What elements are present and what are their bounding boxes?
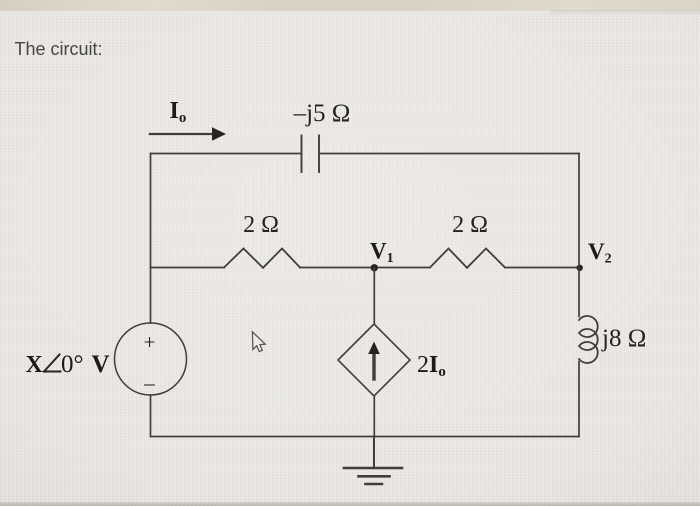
voltage source Vs circle — [115, 323, 187, 395]
dependent source arrow — [368, 342, 380, 380]
wire from dependent source to bottom wire — [373, 396, 375, 437]
wire from node V1 down to dependent source — [373, 268, 375, 324]
svg-text:2Io: 2Io — [417, 352, 446, 380]
current arrow Io — [150, 127, 226, 140]
svg-text:0°: 0° — [61, 351, 84, 378]
resistor R2 2 ohm zigzag — [430, 249, 505, 268]
node V1 dot — [371, 264, 378, 271]
mouse cursor pointer — [252, 332, 265, 352]
label X angle 0 V — [26, 351, 110, 378]
svg-text:X: X — [26, 352, 44, 378]
angle symbol of X angle 0 V — [44, 355, 61, 372]
svg-text:–j5 Ω: –j5 Ω — [293, 100, 351, 127]
ground bar 1 — [344, 467, 402, 470]
wire middle-center segment — [300, 267, 430, 269]
wire left vertical (top corner to source top) — [150, 154, 152, 324]
wire top-left horizontal segment — [151, 153, 302, 155]
svg-text:j8 Ω: j8 Ω — [601, 325, 646, 352]
svg-text:V: V — [92, 351, 110, 378]
ground bar 2 — [359, 475, 390, 478]
wire top-right horizontal segment — [319, 153, 579, 155]
svg-text:2 Ω: 2 Ω — [243, 212, 279, 238]
resistor R1 2 ohm zigzag — [224, 249, 300, 268]
wire bottom horizontal — [151, 436, 579, 438]
ground stub — [373, 437, 375, 468]
capacitor C1 -j5 ohm plates — [302, 136, 320, 173]
inductor L1 j8 ohm coil — [579, 316, 598, 363]
svg-text:2 Ω: 2 Ω — [452, 212, 488, 238]
ground bar 3 — [366, 483, 383, 486]
dependent current source diamond 2Io — [338, 324, 410, 396]
wire left vertical (source bottom to bottom wire) — [150, 395, 152, 437]
svg-text:V1: V1 — [370, 239, 394, 267]
svg-text:V2: V2 — [588, 239, 612, 267]
wire middle-right segment — [505, 267, 579, 269]
wire right vertical upper — [578, 154, 580, 317]
svg-text:+: + — [144, 330, 156, 354]
wire middle-left segment — [151, 267, 225, 269]
svg-text:Io: Io — [170, 98, 187, 126]
node V2 dot — [577, 265, 583, 271]
wire right vertical lower — [578, 362, 580, 437]
svg-text:–: – — [143, 371, 155, 395]
